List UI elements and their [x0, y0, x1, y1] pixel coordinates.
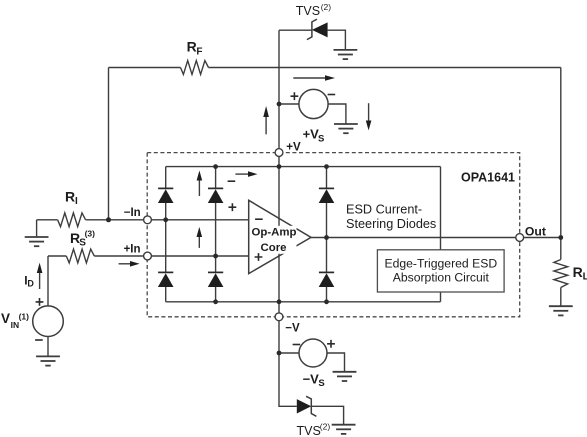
node: col3 / Out junction — [324, 235, 329, 240]
svg-text:+V: +V — [303, 127, 320, 142]
svg-text:TVS: TVS — [296, 4, 320, 18]
label: ID — [24, 273, 34, 288]
pin: -In terminal — [144, 216, 152, 224]
wire: RL bottom lead — [560, 288, 562, 307]
arrow: current right after RS — [119, 261, 140, 267]
ground for top TVS — [334, 50, 358, 59]
wire: VIN vertical lead — [47, 256, 49, 306]
svg-text:(2): (2) — [321, 2, 332, 12]
label: ESD current-steering diodes — [346, 202, 436, 231]
svg-text:−In: −In — [124, 207, 141, 219]
wire: absorption circuit vertical — [440, 167, 442, 302]
wire: top TVS to ground — [328, 30, 346, 50]
svg-text:−V: −V — [303, 371, 320, 386]
wire: bottom TVS to ground — [311, 406, 343, 424]
wire: -V bottom rail — [166, 301, 441, 303]
svg-text:F: F — [196, 47, 202, 58]
wire: -VS left lead — [279, 352, 299, 354]
label: VIN plus sign — [36, 298, 44, 306]
wire: right-side vertical from RF down to Out — [560, 68, 562, 238]
pin: +In terminal — [144, 252, 152, 260]
svg-text:ESD Current-: ESD Current- — [346, 202, 422, 216]
svg-text:OPA1641: OPA1641 — [461, 171, 515, 185]
label: TVS top (2) — [296, 2, 331, 18]
diode D6 (-V to Out) — [319, 272, 335, 287]
wire: +In input rail — [48, 255, 249, 257]
svg-text:(2): (2) — [320, 422, 331, 432]
label: -VS minus sign — [293, 344, 301, 346]
node: center / bottom rail junction — [277, 299, 282, 304]
svg-text:V: V — [1, 311, 10, 326]
label: polarity plus near D2 — [229, 203, 237, 211]
arrow: current up left of supply column — [263, 106, 269, 134]
label: TVS bottom (2) — [297, 422, 331, 437]
diode D2 (+In to +V) — [208, 188, 224, 203]
arrow: current up col1-col2 top — [197, 171, 203, 197]
pin: -V terminal — [275, 313, 283, 321]
ground for VIN — [36, 356, 60, 365]
svg-text:I: I — [75, 196, 78, 207]
TVS D_tvs2 (bottom, pointing right) — [297, 396, 317, 416]
pin terminals (open circles) — [144, 149, 524, 321]
svg-text:S: S — [79, 237, 86, 248]
wire: Out rail from op-amp to load — [311, 237, 561, 239]
label: op-amp core — [252, 226, 297, 254]
wire: RI ground stem — [36, 220, 38, 237]
svg-text:S: S — [318, 378, 324, 389]
svg-text:(1): (1) — [19, 311, 30, 321]
node: +VS tap junction — [277, 102, 282, 107]
node: col2 / top rail junction — [213, 164, 218, 169]
wire: diode column 2 — [215, 167, 217, 302]
diode D1 (-In to +V) — [158, 188, 174, 203]
label: op-amp non-inverting input — [255, 253, 263, 261]
wire: feedback vertical from RF down to -In node — [108, 68, 110, 220]
arrow: ID current up — [37, 263, 43, 289]
label: +VS — [303, 127, 325, 145]
node: center / top rail junction — [277, 164, 282, 169]
source VIN — [33, 306, 64, 337]
node: -VS tap junction — [277, 351, 282, 356]
ground for RI — [25, 237, 49, 246]
svg-text:Op-Amp: Op-Amp — [252, 227, 297, 239]
ground for -VS — [333, 372, 357, 381]
resistor RS — [66, 249, 94, 263]
label: +VS minus sign — [328, 94, 336, 96]
box: edge-triggered ESD absorption circuit — [377, 250, 504, 292]
wire: RF line left segment — [109, 67, 181, 69]
label: -VS — [303, 371, 325, 389]
wire: -In input rail — [37, 219, 249, 221]
pin: +V terminal — [275, 149, 283, 157]
svg-text:R: R — [573, 264, 583, 280]
svg-text:−V: −V — [285, 322, 300, 334]
arrow: current up col1-col2 middle — [197, 227, 203, 248]
wire: supply column +V/-V vertical with TVS stubs — [279, 30, 297, 406]
label: RI — [65, 189, 78, 207]
wire: top TVS anode stub — [279, 29, 312, 31]
label: +VS plus sign — [291, 92, 299, 100]
diode D3 (Out to +V) — [319, 188, 335, 203]
diode D5 (-V to +In) — [208, 272, 224, 287]
op-amp U1 core triangle — [249, 200, 311, 273]
svg-text:(3): (3) — [85, 228, 96, 238]
source +VS — [299, 89, 328, 118]
label: -VS plus sign — [327, 340, 335, 348]
svg-text:+V: +V — [286, 141, 301, 153]
resistor RI — [58, 213, 86, 227]
resistor RF — [181, 61, 209, 75]
svg-text:+In: +In — [124, 243, 141, 255]
svg-text:Edge-Triggered ESD: Edge-Triggered ESD — [384, 257, 497, 271]
wire: +VS right lead to ground — [328, 104, 346, 124]
wire: diode column 1 — [165, 167, 167, 302]
wire: RL top lead — [560, 238, 562, 260]
svg-text:R: R — [187, 39, 197, 55]
node: col2 / bottom rail junction — [213, 299, 218, 304]
label: VIN minus sign — [35, 339, 43, 341]
node: feedback / -In junction — [106, 217, 111, 222]
TVS D_tvs1 (top, pointing left) — [307, 19, 328, 39]
node: col3 / bottom rail junction — [324, 299, 329, 304]
wire: diode column 3 — [326, 167, 328, 302]
label: RL — [573, 264, 587, 283]
svg-text:S: S — [318, 133, 324, 144]
svg-text:Absorption Circuit: Absorption Circuit — [393, 270, 490, 284]
pin: Out terminal — [516, 234, 524, 242]
node: col3 / top rail junction — [324, 164, 329, 169]
label: VIN (1) — [1, 311, 29, 330]
resistor RL — [554, 260, 568, 288]
wire: -VS right lead to ground — [327, 353, 345, 372]
source -VS — [299, 339, 327, 367]
label: RF — [187, 39, 203, 58]
ground for RL — [549, 306, 573, 315]
label: polarity minus near D2 — [228, 180, 236, 182]
svg-text:L: L — [583, 271, 587, 282]
node: col2 / +In junction — [213, 254, 218, 259]
wire: +VS left lead — [279, 103, 299, 105]
dashed boundary OPA1641 — [147, 153, 520, 317]
node: col1 / -In junction — [163, 217, 168, 222]
arrow: current right along top rail — [235, 171, 257, 177]
wire: VIN ground stem — [47, 337, 49, 357]
arrow: current down right of +VS — [366, 103, 372, 130]
ground for bottom TVS — [332, 425, 356, 434]
svg-text:IN: IN — [11, 320, 20, 330]
label: RS (3) — [70, 228, 95, 248]
wire: RF line right segment to right edge — [209, 67, 561, 69]
svg-text:D: D — [27, 279, 34, 289]
wire: +V top rail — [166, 166, 441, 168]
arrow: current right above +VS — [293, 75, 335, 81]
node: Out / RL junction — [558, 235, 563, 240]
label: op-amp inverting input — [255, 218, 263, 220]
ground for +VS — [334, 124, 358, 133]
svg-text:Out: Out — [525, 224, 546, 238]
diode D4 (-V to -In) — [158, 272, 174, 287]
svg-text:Steering Diodes: Steering Diodes — [346, 217, 436, 231]
svg-text:TVS: TVS — [297, 424, 321, 437]
svg-text:Core: Core — [261, 242, 287, 254]
svg-text:R: R — [65, 189, 75, 205]
